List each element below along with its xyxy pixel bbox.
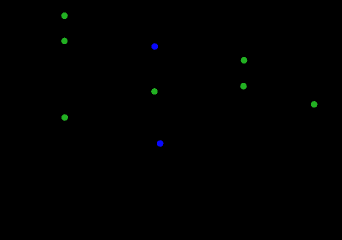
wire [243, 103, 314, 105]
wire [153, 91, 155, 117]
wire [64, 14, 154, 16]
node 7 junction dot [311, 101, 318, 108]
resistor R2 [240, 60, 248, 86]
wire [154, 14, 244, 16]
ground [152, 143, 167, 158]
resistor R3 [310, 104, 318, 130]
node B junction dot [157, 140, 164, 147]
wire [63, 41, 65, 118]
wire [154, 117, 160, 143]
node A junction dot [152, 43, 159, 50]
node 1 junction dot [61, 12, 68, 19]
wire [64, 116, 154, 118]
node 6 junction dot [61, 114, 68, 121]
node 3 junction dot [241, 57, 248, 64]
resistor R1 [150, 46, 158, 91]
voltage source V1 [58, 15, 70, 41]
node 5 junction dot [151, 88, 158, 95]
wire [243, 15, 245, 60]
node 4 junction dot [240, 83, 247, 90]
wire [153, 15, 155, 46]
wire [242, 86, 244, 105]
node 2 junction dot [61, 38, 68, 45]
